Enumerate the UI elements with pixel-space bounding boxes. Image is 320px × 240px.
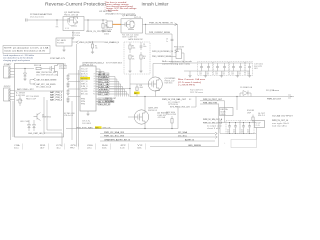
svg-text:10V: 10V	[241, 131, 244, 133]
wire J4 ground loop	[256, 128, 258, 140]
svg-text:U3 MP2636GR-0000-Z: U3 MP2636GR-0000-Z	[82, 62, 105, 64]
svg-text:J2 BATT: J2 BATT	[4, 63, 12, 66]
svg-text:FROM U3: FROM U3	[148, 110, 157, 112]
capacitor C13	[224, 63, 226, 67]
resistor R3 below Q1	[72, 31, 74, 38]
capacitor C22	[235, 123, 237, 126]
svg-text:GND_SENSE: GND_SENSE	[188, 145, 201, 147]
IC U3 body	[80, 66, 96, 111]
component box B1 input filter	[220, 108, 234, 116]
svg-text:VREF: VREF	[81, 89, 88, 91]
svg-text:22u: 22u	[87, 148, 92, 150]
svg-text:SET: SET	[134, 93, 137, 95]
wire fan from pin 10	[109, 91, 126, 93]
wire FB2 to cap bank bus	[182, 52, 185, 54]
wire Q1 drain to node A	[84, 19, 107, 21]
wire vertical drop right 2	[171, 34, 173, 63]
svg-text:PIN: PIN	[81, 101, 85, 103]
svg-text:R9: R9	[132, 56, 134, 58]
capacitor C10	[201, 63, 203, 67]
wire fan from pin 5	[109, 78, 117, 80]
IC U3 lower pin BAT_TO_SYS_SW_EN	[96, 101, 98, 103]
capacitor group box 4	[246, 62, 253, 76]
wire fan from pin 4	[109, 76, 115, 78]
svg-text:Q2 AO3401A: Q2 AO3401A	[122, 14, 137, 17]
svg-text:16V: 16V	[238, 74, 241, 76]
svg-text:PULLDOWN: PULLDOWN	[166, 114, 176, 116]
transistor Q1 mosfet symbol	[63, 17, 78, 26]
svg-text:SYS_FEED_3V3_LDO: SYS_FEED_3V3_LDO	[170, 107, 191, 109]
svg-text:22u: 22u	[206, 72, 209, 74]
svg-text:PGOOD: PGOOD	[81, 76, 88, 78]
capacitor C23	[243, 123, 245, 126]
svg-text:5V-3A OUTPUT: 5V-3A OUTPUT	[272, 115, 294, 118]
svg-text:R2 10k C2 100n: R2 10k C2 100n	[122, 34, 139, 36]
wire bottom bus	[150, 146, 219, 148]
svg-text:I2C_SCL: I2C_SCL	[178, 135, 187, 137]
transistor Q2 mosfet symbol	[121, 21, 134, 29]
svg-text:FDN340P: FDN340P	[59, 68, 67, 70]
ground below R1	[101, 31, 104, 33]
svg-text:P11: P11	[93, 94, 95, 96]
svg-text:ILIM_3: ILIM_3	[81, 86, 88, 88]
connector J3 thermistor	[4, 88, 11, 101]
svg-text:PWR_I2C_SCL_3V3: PWR_I2C_SCL_3V3	[104, 135, 124, 137]
wire bottom center bus	[66, 128, 178, 130]
svg-text:PIN: PIN	[81, 104, 85, 106]
svg-text:2 = MOS FETs: 2 = MOS FETs	[178, 85, 195, 87]
svg-text:PIN: PIN	[81, 99, 85, 101]
wire vertical drop right 1	[177, 24, 179, 51]
capacitor C15	[240, 63, 242, 67]
svg-text:50V X7R: 50V X7R	[254, 66, 263, 68]
connector J2 battery	[4, 66, 11, 78]
svg-text:4k7: 4k7	[40, 148, 45, 150]
wire long pin row to gate divider node	[109, 88, 130, 90]
capacitor group box 2	[214, 62, 229, 76]
wire Q5 source down	[144, 124, 146, 129]
svg-text:GATE SLEW RC: GATE SLEW RC	[128, 38, 144, 41]
svg-text:STEP BAT 4.2V: STEP BAT 4.2V	[50, 57, 66, 60]
svg-text:0603: 0603	[254, 68, 258, 70]
wire fan from pin 8	[109, 86, 123, 88]
wire 5V output bus	[130, 96, 292, 98]
svg-text:49k9: 49k9	[140, 87, 143, 89]
capacitor group output box 1	[226, 121, 240, 134]
svg-text:PWR_IN_FILTERED_5V: PWR_IN_FILTERED_5V	[149, 22, 174, 24]
wire Q5 gate from fan	[128, 116, 134, 118]
svg-text:C19 100n: C19 100n	[254, 64, 263, 66]
connector J4 box	[255, 121, 265, 128]
svg-text:CELL TEMP WINDOW 0-45C: CELL TEMP WINDOW 0-45C	[36, 74, 59, 76]
svg-text:PMOS -20V: PMOS -20V	[165, 80, 176, 82]
net flag VBAT_CHG (left arrow)	[76, 41, 79, 44]
transistor Q5 circle bottom	[134, 110, 148, 124]
wire cap bank bottom bus	[184, 70, 250, 72]
svg-text:NTC_10: NTC_10	[81, 81, 88, 83]
svg-text:10u: 10u	[14, 148, 19, 150]
section box battery charger	[15, 64, 64, 138]
svg-text:SW_NOD: SW_NOD	[81, 91, 88, 93]
wire vertical x178 to bottom bus	[177, 107, 179, 129]
svg-text:22u: 22u	[238, 72, 241, 74]
svg-text:P5: P5	[94, 79, 96, 81]
svg-text:BAT_VOLTAGE_SENSE: BAT_VOLTAGE_SENSE	[37, 78, 58, 81]
svg-text:J3 NTC: J3 NTC	[4, 86, 12, 88]
net flag arrows battery sense	[33, 78, 35, 80]
svg-text:22u: 22u	[199, 72, 202, 74]
svg-text:C4 100n: C4 100n	[104, 29, 112, 31]
ground symbol	[204, 76, 207, 78]
ferrite bead FB2 box	[176, 49, 182, 59]
svg-text:10u: 10u	[247, 130, 250, 132]
svg-text:16V: 16V	[199, 74, 202, 76]
svg-text:NO_CONNECT: NO_CONNECT	[168, 102, 180, 104]
component D1 box	[56, 38, 72, 46]
svg-text:P3: P3	[94, 74, 96, 76]
capacitor bypass at pin 2	[96, 71, 104, 73]
ground symbol	[248, 76, 251, 78]
transistor Q4 symbol in charger	[50, 64, 58, 73]
capacitor C14	[233, 63, 235, 67]
wire fan from pin 9	[109, 88, 125, 90]
svg-text:PWR_5V_OUT_J4: PWR_5V_OUT_J4	[272, 120, 288, 122]
transistor Q6 small	[34, 113, 41, 121]
zener D2 on battery rail	[24, 69, 26, 74]
svg-text:R8: R8	[132, 46, 134, 48]
wire battery rail into box	[15, 68, 35, 70]
svg-text:R5 56k: R5 56k	[104, 31, 111, 33]
svg-text:Inrush Limiter: Inrush Limiter	[142, 2, 170, 7]
svg-text:16V: 16V	[215, 74, 218, 76]
svg-text:CHG_INT_N: CHG_INT_N	[98, 104, 110, 106]
resistor R8	[129, 42, 131, 45]
wire flag row to right	[88, 41, 104, 43]
svg-text:CHG_STAT_LED_N: CHG_STAT_LED_N	[28, 132, 46, 135]
wire Q3 source down to 5V bus	[155, 91, 157, 97]
svg-text:1 5V: 1 5V	[256, 122, 261, 124]
transistor Q2 body box	[121, 19, 143, 33]
svg-text:PWR_5V_OUT: PWR_5V_OUT	[267, 99, 281, 101]
transistor Q1 body box	[63, 17, 84, 31]
resistor R4 on riser	[92, 42, 94, 44]
wire Q4 to IC	[58, 63, 67, 65]
resistor R9	[129, 55, 131, 59]
svg-text:(2.5-mm Limits): (2.5-mm Limits)	[178, 81, 202, 84]
svg-text:1u: 1u	[166, 41, 168, 43]
svg-text:trickle rate ACID threshold at: trickle rate ACID threshold at 13.5V	[4, 49, 46, 52]
svg-text:BAT CONN + NTC: BAT CONN + NTC	[17, 88, 35, 91]
svg-text:10u: 10u	[241, 130, 244, 132]
svg-text:Reverse-Current Protection: Reverse-Current Protection	[45, 2, 107, 7]
svg-text:NTC 10k B3435: NTC 10k B3435	[26, 96, 39, 98]
resistor R10	[140, 52, 142, 55]
transistor Q3 circle body	[148, 77, 162, 91]
svg-text:SYS POWER MUX: SYS POWER MUX	[106, 62, 123, 64]
svg-text:PH-2.0: PH-2.0	[258, 115, 265, 117]
svg-text:10V: 10V	[227, 131, 230, 133]
svg-text:16V: 16V	[206, 74, 209, 76]
transistor Q5 mosfet symbol	[134, 111, 145, 124]
junction on bus	[236, 96, 237, 97]
svg-text:MMBT3904: MMBT3904	[42, 117, 51, 119]
component U2 small box	[107, 21, 113, 28]
node VBUS junction	[87, 19, 88, 20]
svg-text:47k: 47k	[132, 58, 135, 60]
wire D1 right to flag	[72, 41, 76, 43]
wire vertical right bottom	[218, 104, 220, 147]
svg-text:C1 100n: C1 100n	[72, 35, 80, 37]
capacitor group box 3	[230, 62, 245, 76]
wire down from VBUS junction to label row	[87, 20, 89, 32]
svg-text:10V 0805: 10V 0805	[82, 123, 91, 125]
svg-text:ISET_1: ISET_1	[81, 84, 88, 86]
node VIN junction	[56, 19, 57, 20]
svg-text:R11: R11	[140, 85, 143, 87]
svg-text:CHG_ENABLE_N: CHG_ENABLE_N	[104, 41, 120, 44]
svg-text:10V: 10V	[247, 131, 250, 133]
svg-text:VBUS_IN_5V: VBUS_IN_5V	[79, 42, 92, 44]
node Q2 output junction	[145, 24, 146, 25]
resistor R1 pulldown	[102, 20, 104, 24]
wire down from bus to filter	[236, 97, 238, 111]
svg-text:R13 100k: R13 100k	[166, 112, 175, 114]
svg-text:R10: R10	[143, 56, 146, 58]
svg-text:5V @3A max: 5V @3A max	[266, 89, 279, 92]
note box design rules	[3, 46, 50, 54]
capacitor C8	[140, 42, 142, 46]
svg-text:PWR_CURRENT_SENSE: PWR_CURRENT_SENSE	[152, 56, 172, 58]
connector J1 symbol	[26, 19, 28, 22]
svg-text:32k: 32k	[137, 148, 142, 150]
svg-text:J4 OUT: J4 OUT	[258, 113, 265, 115]
svg-text:R4: R4	[95, 45, 97, 47]
svg-text:Max Current: 3 A max: Max Current: 3 A max	[178, 78, 205, 81]
capacitor C3 on drop	[171, 39, 174, 40]
capacitor C21	[229, 123, 231, 126]
wire row interrupt	[100, 140, 215, 142]
svg-text:47u: 47u	[227, 130, 230, 132]
svg-text:1u: 1u	[56, 148, 61, 150]
capacitor group output box 2	[240, 121, 254, 134]
capacitor C16	[249, 63, 251, 67]
wire Q2 lower output	[146, 33, 173, 35]
capacitor C24	[249, 123, 251, 126]
wire Q5 drain to 5V bus	[144, 97, 146, 111]
svg-text:charging graph and systems: charging graph and systems	[3, 59, 30, 62]
svg-text:PWR_5V_SYS_RAIL_OUT: PWR_5V_SYS_RAIL_OUT	[162, 98, 186, 101]
wire gate feed from divider	[129, 74, 131, 97]
svg-text:C3: C3	[166, 39, 168, 41]
svg-text:P9: P9	[94, 89, 96, 91]
svg-text:22u: 22u	[222, 72, 225, 74]
svg-text:2512 1W sense: 2512 1W sense	[190, 92, 203, 94]
svg-text:1x3: 1x3	[120, 148, 125, 150]
svg-text:P4: P4	[94, 76, 96, 78]
wire fan from pin 6	[109, 81, 119, 83]
svg-text:22u: 22u	[231, 72, 234, 74]
divider battery connector	[15, 90, 64, 92]
svg-text:0402: 0402	[104, 33, 109, 35]
diode D5 symbol	[243, 91, 248, 96]
IC U3 lower pin CHG_INT_N	[96, 103, 98, 105]
wire output top bus	[219, 122, 257, 124]
ground below R4	[91, 52, 94, 54]
connector stub right end	[288, 95, 294, 98]
svg-text:DNP: DNP	[247, 113, 251, 115]
svg-text:P7: P7	[94, 84, 96, 86]
svg-text:LED CHG: LED CHG	[20, 121, 30, 123]
test point TP1 stub	[56, 20, 58, 26]
svg-text:B- RETURN: B- RETURN	[16, 95, 25, 97]
svg-text:R3 100k: R3 100k	[72, 33, 80, 35]
svg-text:P8: P8	[94, 86, 96, 88]
svg-text:10V: 10V	[233, 131, 236, 133]
svg-text:16V: 16V	[231, 74, 234, 76]
svg-text:10k: 10k	[95, 48, 98, 50]
IC U3 left side caps	[68, 73, 80, 75]
svg-text:BAT_PIN_4: BAT_PIN_4	[50, 99, 62, 102]
resistor divider box	[124, 42, 150, 74]
svg-text:BAT_NTC_10K_B3435: BAT_NTC_10K_B3435	[37, 83, 56, 86]
svg-text:C9 4.7u: C9 4.7u	[82, 121, 90, 123]
wire sense rows	[30, 79, 33, 81]
svg-text:OPTION R0: OPTION R0	[168, 104, 178, 106]
svg-text:VCC_5V: VCC_5V	[81, 69, 88, 71]
wire Q3 drain up	[152, 64, 154, 78]
component R11 with yellow highlight near gate	[136, 84, 138, 87]
svg-text:PWR_CURRENT_SENSE: PWR_CURRENT_SENSE	[149, 32, 171, 34]
svg-text:B+ SENSE: B+ SENSE	[16, 93, 25, 95]
svg-text:PMOS -30V 3A: PMOS -30V 3A	[64, 13, 79, 16]
ground divider	[129, 63, 131, 71]
diode D4 led	[33, 120, 35, 125]
wire fan from pin 7	[109, 83, 121, 85]
wire verticals below box	[61, 133, 63, 147]
capacitor bypass at pin 1	[96, 68, 100, 70]
svg-text:100n: 100n	[143, 46, 147, 48]
svg-text:22u: 22u	[215, 72, 218, 74]
wire Q2 sense branch down	[145, 24, 147, 34]
svg-text:16V: 16V	[222, 74, 225, 76]
svg-text:DC5.5x2.1mm: DC5.5x2.1mm	[30, 17, 45, 19]
wire D1 down	[63, 46, 65, 50]
svg-text:PWR_IN_FILTERED_5V: PWR_IN_FILTERED_5V	[152, 51, 174, 53]
capacitor C11	[208, 63, 210, 67]
IC U3 bottom ground	[87, 111, 89, 114]
capacitor C12	[217, 63, 219, 67]
svg-text:PH2: PH2	[70, 148, 75, 150]
svg-text:R7 2k: R7 2k	[17, 100, 23, 102]
diode D3 led	[28, 125, 31, 128]
wire VIN from J1 to Q1	[27, 19, 63, 21]
wire vertical left output	[224, 101, 226, 123]
wire corners lower	[43, 97, 45, 133]
capacitor group box 1	[198, 62, 213, 76]
svg-text:RDS 85m: RDS 85m	[165, 83, 174, 85]
svg-text:Q3 SI2301: Q3 SI2301	[165, 78, 176, 80]
wire rows bottom to right	[100, 133, 215, 135]
svg-text:10k: 10k	[102, 148, 107, 150]
svg-text:CHG_OK: CHG_OK	[81, 71, 88, 73]
svg-text:P6: P6	[94, 81, 96, 83]
ground symbol	[236, 76, 239, 78]
wire fan from pin 11	[109, 93, 128, 95]
wire cap bank top bus	[172, 62, 252, 64]
transistor Q3 mosfet symbol	[148, 78, 160, 91]
svg-text:C8: C8	[143, 44, 145, 46]
svg-text:0805: 0805	[221, 114, 226, 116]
svg-text:FB2 600R: FB2 600R	[174, 47, 185, 49]
svg-text:QFN-24 4x4: QFN-24 4x4	[82, 65, 93, 67]
svg-text:P10: P10	[93, 91, 96, 93]
svg-text:TP1: TP1	[56, 27, 59, 29]
svg-text:Q4 CHG: Q4 CHG	[59, 66, 68, 68]
IC U3 highlighted pin (yellow)	[80, 77, 90, 80]
svg-text:R12 0.05R 1%: R12 0.05R 1%	[190, 90, 204, 92]
wire highlighted (orange) inrush path	[113, 23, 122, 25]
ground symbol	[220, 76, 223, 78]
svg-text:FILTER: FILTER	[57, 43, 65, 45]
svg-text:NOTE: pin absorption is 0.5V+: NOTE: pin absorption is 0.5V+ at 1.8A	[4, 46, 49, 49]
svg-text:47u: 47u	[233, 130, 236, 132]
wire Q2 output to net flag PWR_IN	[143, 23, 178, 25]
svg-text:100k: 100k	[132, 48, 136, 50]
wire J3 verticals down	[10, 101, 12, 140]
IC U3 lower pin CHG_PROCHOT_N	[96, 98, 98, 100]
ground symbol	[188, 76, 191, 78]
wire output ground bus	[220, 133, 256, 135]
title block frame corner	[231, 140, 257, 148]
svg-text:U2 NCP380: U2 NCP380	[99, 11, 112, 13]
